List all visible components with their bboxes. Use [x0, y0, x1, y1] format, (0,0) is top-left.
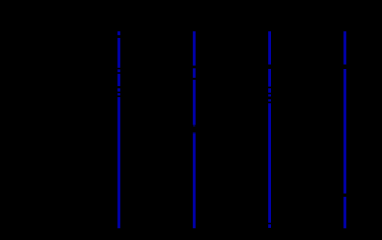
gridline 4 (x=344.9)	[343, 31, 346, 228]
gridline 3 (x=269.6)	[268, 31, 271, 228]
gridline 2 (x=194.2)	[193, 31, 196, 228]
gridline 1 (x=118.9)	[118, 31, 121, 228]
